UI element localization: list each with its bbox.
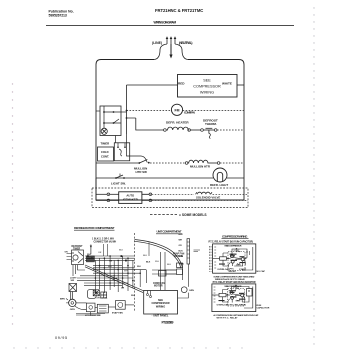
mullion dashed to neutral [220, 162, 244, 164]
control switch box [114, 143, 129, 161]
wires box2 [212, 287, 253, 309]
svg-text:OR: OR [65, 252, 69, 254]
dashed wire to solenoid [152, 193, 194, 195]
mesh junction dots [95, 265, 141, 284]
svg-text:WIRING: WIRING [156, 305, 165, 308]
defrost heater terminal left [164, 129, 167, 132]
wire white from compressor [237, 84, 244, 86]
svg-text:MULLION HTR: MULLION HTR [190, 165, 211, 169]
svg-text:TIMER: TIMER [101, 142, 110, 146]
svg-text:COMPRESSOR: COMPRESSOR [193, 85, 221, 89]
svg-text:MAIN COMPRESSOR: MAIN COMPRESSOR [225, 245, 242, 248]
svg-text:COMPRESSOR WIRING: COMPRESSOR WIRING [222, 234, 248, 238]
svg-text:CONT.: CONT. [101, 155, 109, 159]
svg-text:GRN: GRN [189, 290, 194, 292]
mesh horizontals [77, 266, 146, 286]
timer motor [101, 128, 107, 134]
header rule [46, 24, 294, 26]
timer lower wires [73, 265, 85, 276]
box1 left tick column [214, 247, 249, 268]
svg-text:ICEMAKER: ICEMAKER [123, 198, 138, 202]
svg-text:BLK: BLK [146, 262, 151, 264]
power cord prongs with arrows [166, 36, 177, 44]
scan noise dots bottom [13, 347, 242, 348]
relay component 2 [219, 293, 226, 296]
unit connectors [177, 269, 183, 275]
svg-text:BLK: BLK [167, 264, 172, 266]
svg-text:CONNECTOR (4) WH: CONNECTOR (4) WH [94, 241, 117, 244]
unit connector cluster left [159, 271, 167, 277]
defrost heater element [166, 127, 189, 130]
strip side verticals [194, 250, 201, 252]
some models dashed box [92, 188, 248, 208]
svg-text:09/95: 09/95 [55, 336, 67, 340]
svg-text:WH: WH [131, 295, 135, 297]
mesh verticals [95, 256, 146, 293]
svg-text:UNIT COMPARTMENT: UNIT COMPARTMENT [157, 230, 182, 234]
curve drop wire [148, 243, 150, 257]
light row wire [96, 177, 213, 179]
main box outline [96, 60, 244, 201]
wire bus to timer [96, 110, 100, 112]
svg-text:OR: OR [109, 261, 113, 263]
svg-text:CAPACITOR: CAPACITOR [257, 307, 270, 310]
defrost timer pictorial [72, 250, 84, 265]
svg-text:WIRING: WIRING [200, 91, 214, 95]
svg-text:NO CAP: NO CAP [257, 270, 266, 273]
svg-text:BLK: BLK [179, 234, 184, 236]
svg-text:GRN: GRN [179, 264, 184, 266]
scan noise dots right [313, 7, 314, 344]
unit panel box [144, 291, 178, 315]
svg-text:MAIN: MAIN [236, 300, 241, 303]
defrost feed wire from timer [136, 118, 164, 130]
box2 extra wires [223, 290, 246, 304]
rail junction dots [104, 255, 129, 261]
unit panel connection wires [148, 291, 189, 299]
icemaker terminal [107, 193, 110, 196]
box1 label blobs [219, 254, 245, 265]
svg-text:WH: WH [124, 271, 128, 273]
svg-text:COND FAN: COND FAN [153, 282, 165, 285]
wires box1 [213, 247, 253, 270]
svg-text:BRN: BRN [60, 299, 65, 301]
svg-text:COLD: COLD [101, 150, 109, 154]
svg-text:BLK: BLK [143, 255, 148, 257]
timer junction dots [103, 110, 127, 124]
cold control box [98, 147, 114, 161]
compressor terminals 1 [231, 255, 234, 258]
grommet circle [181, 287, 187, 293]
svg-text:GRN: GRN [70, 309, 75, 311]
mullion heater terminal left [185, 162, 188, 165]
svg-text:P7292689: P7292689 [162, 320, 174, 324]
wire lamp to neutral [227, 177, 244, 179]
defrost limiter rounded box [88, 290, 97, 299]
svg-text:WIRE IN PLACE OF P.T.C. RELAY: WIRE IN PLACE OF P.T.C. RELAY [215, 278, 246, 281]
box2 label blobs [219, 290, 245, 301]
svg-text:WH: WH [155, 261, 159, 263]
svg-text:THERM.: THERM. [205, 122, 217, 126]
left lamp pictorial [69, 284, 77, 301]
svg-text:COMP. FAN: COMP. FAN [184, 111, 196, 115]
strip wire labels [179, 234, 185, 266]
cord right shoulder [175, 44, 188, 60]
svg-text:GRN: GRN [179, 256, 184, 258]
big curve harness to unit [135, 240, 183, 269]
inner dashed compressor outline 2 [228, 289, 245, 307]
compressor dashed box [178, 75, 238, 98]
icemaker wire row2 [96, 199, 107, 201]
svg-text:WITH P.T.C. RELAY: WITH P.T.C. RELAY [217, 316, 239, 319]
defrost thermostat [201, 128, 217, 138]
svg-text:DEFR. HEATER: DEFR. HEATER [166, 121, 189, 125]
wire drop with arrow [90, 245, 92, 255]
defrost timer box [100, 106, 121, 136]
svg-text:SOLENOID VALVE: SOLENOID VALVE [196, 195, 220, 199]
mullion dashed wire [150, 162, 185, 164]
svg-text:1 BLK-2, 2 OR-1 WH: 1 BLK-2, 2 OR-1 WH [92, 239, 114, 241]
box2 left tick column [214, 287, 241, 302]
diagonal harness [85, 265, 144, 291]
svg-text:BLK: BLK [119, 250, 124, 252]
comp fan dashed wire right [183, 110, 244, 112]
mullion switch [138, 162, 140, 164]
refr light lamp [213, 168, 227, 182]
water solenoid valve coil [196, 192, 213, 194]
terminal strip [187, 239, 190, 264]
svg-text:START: START [234, 249, 241, 252]
wire red to compressor [127, 84, 178, 86]
svg-text:FM: FM [175, 108, 180, 112]
svg-text:SEE: SEE [203, 79, 211, 83]
timer internal wiring [104, 106, 147, 163]
timer left stubs [67, 254, 72, 260]
dashed wires to right [213, 193, 249, 195]
cord left shoulder [154, 44, 167, 60]
svg-text:RED: RED [178, 81, 185, 85]
compressor box 1 [213, 244, 256, 273]
svg-text:WH: WH [137, 266, 141, 268]
svg-text:RELAY: RELAY [229, 270, 237, 273]
svg-text:RUN: RUN [241, 304, 246, 306]
relay component 1 [220, 257, 227, 260]
scan noise dots left [12, 83, 13, 324]
svg-text:WH: WH [87, 254, 91, 256]
svg-text:WHITE: WHITE [222, 81, 232, 85]
svg-text:LIGHT SW.: LIGHT SW. [111, 182, 126, 186]
bottom harness [75, 303, 135, 316]
svg-text:MOTOR: MOTOR [154, 286, 163, 288]
defrost row dashed to neutral [217, 129, 244, 131]
svg-text:BLK: BLK [113, 278, 118, 280]
defrost heater terminal right [188, 129, 191, 132]
icemaker right terminals [149, 193, 152, 196]
wire to terminal [209, 162, 218, 164]
svg-text:BLK: BLK [179, 251, 184, 253]
svg-text:WIRING DIAGRAM: WIRING DIAGRAM [154, 20, 177, 24]
bottom bus [95, 199, 97, 201]
svg-text:REFRIGERATOR COMPARTMENT: REFRIGERATOR COMPARTMENT [74, 226, 115, 230]
mullion heater element [188, 160, 209, 163]
box1 extra wires [223, 253, 246, 267]
dark cluster component [93, 290, 106, 298]
svg-text:MAIN: MAIN [236, 264, 241, 267]
comp fan dashed wire left [127, 110, 172, 112]
compressor terminals 2 [230, 291, 233, 294]
svg-text:BLK: BLK [108, 266, 113, 268]
mullion heater row wire [96, 162, 139, 164]
line drop from red wire to timer [126, 85, 128, 134]
svg-text:EVAP FAN: EVAP FAN [112, 312, 123, 315]
svg-text:START: START [233, 286, 240, 289]
svg-text:WH: WH [179, 240, 183, 242]
auto icemaker box [119, 192, 142, 204]
svg-text:(NEUTRAL): (NEUTRAL) [179, 41, 193, 45]
svg-text:(LINE): (LINE) [152, 41, 162, 45]
ground wire with down arrow [170, 44, 172, 55]
comp fan motor circle [171, 104, 182, 115]
inner dashed compressor outline 1 [228, 252, 245, 271]
dashed link to compressor detail [209, 246, 211, 272]
light switch [115, 177, 117, 179]
legend some models [150, 214, 177, 216]
rail connector blobs [87, 255, 127, 261]
svg-text:REFR. LIGHT: REFR. LIGHT [210, 183, 228, 187]
svg-text:HTR SW: HTR SW [136, 170, 148, 174]
svg-text:OR: OR [98, 252, 102, 254]
icemaker wire row1 [96, 193, 107, 195]
svg-text:- UNIT PANEL: - UNIT PANEL [152, 314, 169, 318]
header publication no [49, 9, 74, 17]
svg-text:FRT21HNC & FRT21TMC: FRT21HNC & FRT21TMC [155, 8, 203, 13]
svg-text:START: START [239, 268, 247, 271]
svg-text:= SOME MODELS: = SOME MODELS [179, 213, 207, 217]
svg-text:P.T.C. RELAY START (NO RUN CAP: P.T.C. RELAY START (NO RUN CAPACITOR) [209, 241, 254, 244]
svg-text:OR: OR [179, 245, 183, 247]
svg-text:5995267213: 5995267213 [49, 14, 67, 18]
compartment divider dashed [134, 233, 136, 312]
wire heater to therm [190, 129, 200, 131]
mullion heater terminal right [217, 162, 220, 165]
compressor box 2 [212, 284, 256, 312]
harness rails [85, 256, 135, 260]
bottom component boxes [86, 303, 95, 312]
run capacitor 2 [247, 289, 253, 297]
drop wires from note text [104, 244, 108, 256]
extra wire labels pictorial [87, 254, 151, 297]
unit vertical wires [152, 252, 188, 290]
svg-text:OVERLOAD: OVERLOAD [217, 303, 230, 306]
connector stack [87, 256, 95, 259]
wire color labels [96, 250, 172, 300]
svg-text:OR: OR [121, 288, 125, 290]
bottom left motor circle [69, 299, 76, 306]
